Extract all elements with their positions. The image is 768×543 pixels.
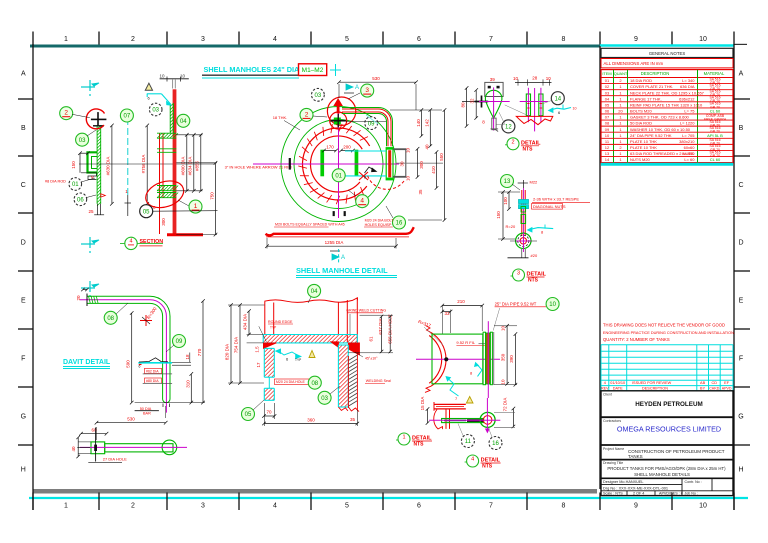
- svg-text:Drg No : XXX-XXX-ME-XXX-DTL-0: Drg No : XXX-XXX-ME-XXX-DTL-001: [603, 485, 668, 490]
- svg-text:530: 530: [127, 417, 135, 422]
- svg-text:07: 07: [605, 115, 610, 120]
- svg-text:#600 DIA: #600 DIA: [181, 157, 186, 176]
- svg-text:REINF PAD PLATE 15 THK 1320: REINF PAD PLATE 15 THK 1320 x 1010: [630, 102, 703, 107]
- svg-text:CL 60: CL 60: [710, 109, 721, 114]
- svg-text:WASHER 10 THK. OD 60 x 10.50: WASHER 10 THK. OD 60 x 10.50: [630, 127, 691, 132]
- svg-text:GASKET 3 THK. OD 723 x 8.60: GASKET 3 THK. OD 723 x 8.600: [630, 115, 690, 120]
- svg-text:05: 05: [605, 102, 610, 107]
- svg-text:45°±10°: 45°±10°: [365, 356, 378, 360]
- svg-text:770: 770: [197, 348, 202, 356]
- svg-text:11: 11: [465, 439, 472, 445]
- svg-text:09: 09: [368, 121, 375, 127]
- svg-text:17: 17: [256, 362, 261, 368]
- svg-text:5: 5: [345, 503, 349, 510]
- svg-text:72 DIA: 72 DIA: [503, 398, 508, 412]
- svg-text:ROUND EDGE: ROUND EDGE: [268, 320, 293, 324]
- svg-text:10: 10: [501, 326, 506, 332]
- svg-text:Drawing Title: Drawing Title: [603, 461, 623, 465]
- svg-text:10: 10: [573, 107, 577, 111]
- svg-text:4: 4: [360, 198, 364, 205]
- svg-text:A: A: [355, 85, 359, 91]
- svg-text:BAR: BAR: [143, 412, 151, 416]
- svg-text:03: 03: [605, 90, 610, 95]
- svg-text:1255 DIA: 1255 DIA: [325, 240, 344, 245]
- svg-text:750: 750: [210, 192, 215, 200]
- svg-text:CHKD: CHKD: [709, 387, 720, 391]
- svg-text:1.5: 1.5: [255, 346, 260, 353]
- svg-text:07: 07: [124, 114, 131, 120]
- svg-text:10: 10: [159, 74, 165, 79]
- svg-text:4: 4: [273, 36, 277, 43]
- svg-text:4: 4: [129, 238, 132, 244]
- svg-text:3: 3: [201, 36, 205, 43]
- svg-text:8: 8: [562, 36, 566, 43]
- svg-text:350: 350: [501, 353, 506, 361]
- svg-text:8: 8: [562, 503, 566, 510]
- svg-text:L= 60: L= 60: [684, 157, 695, 162]
- svg-text:18 DIA ROD: 18 DIA ROD: [630, 78, 652, 83]
- svg-text:M1–M2: M1–M2: [302, 67, 324, 74]
- svg-text:QUANT: QUANT: [614, 71, 628, 76]
- svg-text:COVER PLATE 21 THK.: COVER PLATE 21 THK.: [630, 84, 673, 89]
- svg-text:Scale : NTS: Scale : NTS: [603, 492, 623, 496]
- svg-text:R=20: R=20: [506, 224, 516, 229]
- svg-text:L= 1220: L= 1220: [680, 121, 695, 126]
- svg-text:ENGINEERING PRACTICE DURING CO: ENGINEERING PRACTICE DURING CONSTRUCTION…: [603, 331, 735, 335]
- svg-text:QUANTITY: 2 NUMBER OF TANKS: QUANTITY: 2 NUMBER OF TANKS: [603, 337, 670, 342]
- svg-text:170: 170: [326, 144, 334, 149]
- svg-text:B: B: [739, 125, 744, 132]
- svg-text:NECK PLATE 22 THK. OD 1295 x: NECK PLATE 22 THK. OD 1295 x 10.657: [630, 90, 705, 95]
- svg-text:390: 390: [509, 355, 514, 363]
- svg-text:BY: BY: [700, 387, 706, 391]
- svg-text:2: 2: [131, 503, 135, 510]
- svg-text:25: 25: [88, 209, 94, 214]
- svg-text:16: 16: [492, 441, 499, 447]
- svg-text:300: 300: [161, 218, 166, 226]
- svg-text:2: 2: [131, 36, 135, 43]
- svg-text:636x212: 636x212: [679, 96, 695, 101]
- svg-text:9: 9: [634, 36, 638, 43]
- svg-text:1: 1: [194, 203, 198, 210]
- svg-text:10: 10: [549, 302, 556, 308]
- svg-text:360: 360: [307, 418, 315, 423]
- svg-text:12: 12: [505, 125, 512, 131]
- svg-text:380x210: 380x210: [679, 139, 695, 144]
- svg-text:8: 8: [364, 176, 366, 180]
- svg-text:28: 28: [532, 75, 538, 80]
- svg-text:M20 BOLTS EQUALLY SPACED WITH: M20 BOLTS EQUALLY SPACED WITH A45: [275, 223, 345, 227]
- svg-text:Job No :: Job No :: [685, 492, 698, 496]
- svg-text:9: 9: [634, 503, 638, 510]
- svg-text:80: 80: [461, 102, 466, 108]
- svg-text:#855: #855: [195, 160, 200, 171]
- svg-text:15 DIA: 15 DIA: [420, 397, 425, 411]
- svg-text:14: 14: [605, 157, 610, 162]
- svg-text:3: 3: [365, 87, 369, 94]
- svg-text:310: 310: [185, 380, 190, 388]
- svg-text:2: 2: [64, 110, 68, 117]
- svg-text:CL 60: CL 60: [710, 157, 721, 162]
- svg-text:61: 61: [369, 336, 374, 342]
- svg-text:1: 1: [64, 503, 68, 510]
- svg-text:Client: Client: [603, 393, 612, 397]
- svg-text:6: 6: [417, 503, 421, 510]
- svg-text:ITEM: ITEM: [602, 71, 611, 76]
- svg-text:Contr. No :: Contr. No :: [685, 480, 702, 484]
- svg-text:04: 04: [180, 119, 187, 125]
- svg-text:OMEGA RESOURCES LIMITED: OMEGA RESOURCES LIMITED: [617, 425, 721, 434]
- svg-text:03: 03: [152, 108, 159, 114]
- svg-text:TYP: TYP: [295, 358, 301, 362]
- svg-text:#8 DIA ROD: #8 DIA ROD: [45, 180, 66, 184]
- svg-text:C: C: [21, 182, 26, 189]
- svg-text:GRIND WELD CUTTING: GRIND WELD CUTTING: [346, 308, 386, 312]
- svg-text:4: 4: [604, 381, 606, 385]
- svg-text:2: 2: [305, 111, 309, 118]
- svg-text:E: E: [21, 298, 26, 305]
- svg-text:Contractors: Contractors: [603, 419, 621, 423]
- svg-text:06: 06: [77, 198, 84, 204]
- svg-text:5: 5: [345, 36, 349, 43]
- svg-text:M22: M22: [530, 180, 539, 185]
- svg-text:G: G: [738, 414, 743, 421]
- svg-text:7: 7: [489, 36, 493, 43]
- svg-text:18 THK.: 18 THK.: [273, 115, 288, 120]
- svg-text:32: 32: [470, 98, 475, 104]
- svg-text:14: 14: [554, 96, 561, 102]
- svg-text:10: 10: [699, 503, 707, 510]
- svg-text:PLATE 10 THK: PLATE 10 THK: [630, 139, 657, 144]
- svg-text:#20: #20: [531, 253, 538, 258]
- svg-text:39: 39: [490, 77, 496, 82]
- svg-text:1: 1: [64, 36, 68, 43]
- svg-text:50 DIA ROD: 50 DIA ROD: [630, 121, 652, 126]
- svg-text:DIAGONAL NUTS: DIAGONAL NUTS: [533, 204, 566, 209]
- svg-text:HEYDEN PETROLEUM: HEYDEN PETROLEUM: [635, 401, 703, 408]
- svg-text:C: C: [738, 182, 743, 189]
- svg-text:DESCRIPTION: DESCRIPTION: [642, 387, 668, 391]
- svg-text:L= 660: L= 660: [682, 151, 695, 156]
- svg-text:10: 10: [501, 379, 506, 385]
- svg-text:10: 10: [546, 76, 552, 81]
- svg-text:#62 DIA: #62 DIA: [146, 369, 159, 373]
- svg-text:16: 16: [396, 221, 403, 227]
- svg-text:DATE: DATE: [613, 387, 623, 391]
- svg-text:13: 13: [605, 151, 610, 156]
- svg-text:L= 75: L= 75: [684, 109, 695, 114]
- svg-text:NTS: NTS: [528, 278, 539, 284]
- svg-text:10: 10: [699, 36, 707, 43]
- svg-text:150: 150: [71, 161, 76, 169]
- svg-text:410: 410: [431, 166, 436, 174]
- svg-text:HOLES EQUISP: HOLES EQUISP: [365, 223, 392, 227]
- svg-text:A: A: [739, 71, 744, 78]
- svg-text:530: 530: [372, 76, 380, 81]
- svg-text:01: 01: [605, 78, 610, 83]
- svg-text:08: 08: [605, 121, 610, 126]
- svg-text:NTS: NTS: [482, 464, 493, 470]
- svg-text:06: 06: [605, 109, 610, 114]
- svg-text:1: 1: [402, 435, 405, 441]
- svg-text:APVD: APVD: [722, 387, 732, 391]
- svg-text:300: 300: [419, 161, 424, 169]
- svg-text:60x60: 60x60: [684, 145, 696, 150]
- svg-text:6: 6: [417, 36, 421, 43]
- svg-text:L= 705: L= 705: [682, 133, 695, 138]
- svg-text:3: 3: [201, 503, 205, 510]
- svg-text:01: 01: [72, 182, 79, 188]
- svg-text:01: 01: [335, 174, 342, 180]
- svg-text:20: 20: [618, 109, 623, 114]
- svg-text:10: 10: [605, 133, 610, 138]
- svg-text:REV: REV: [601, 387, 609, 391]
- svg-text:PLATE 10 THK: PLATE 10 THK: [630, 145, 657, 150]
- svg-text:09: 09: [605, 127, 610, 132]
- svg-text:03: 03: [321, 396, 328, 402]
- svg-text:D: D: [21, 240, 26, 247]
- svg-text:API 5L B: API 5L B: [707, 133, 723, 138]
- svg-text:13: 13: [504, 179, 511, 185]
- svg-text:ALL DIMENSIONS ARE IN mm: ALL DIMENSIONS ARE IN mm: [604, 61, 664, 66]
- svg-text:754 DIA: 754 DIA: [234, 337, 239, 353]
- svg-text:590: 590: [126, 360, 131, 368]
- svg-text:70: 70: [266, 410, 272, 415]
- svg-text:2: 2: [511, 139, 514, 145]
- svg-text:820 DIA: 820 DIA: [225, 344, 230, 360]
- svg-text:10: 10: [513, 76, 519, 81]
- svg-text:EF: EF: [724, 381, 730, 385]
- svg-text:L= 340: L= 340: [682, 78, 695, 83]
- svg-text:TANKS: TANKS: [628, 454, 643, 459]
- svg-text:30: 30: [400, 161, 405, 167]
- svg-text:40: 40: [425, 144, 430, 150]
- svg-text:27 DIA HOLE: 27 DIA HOLE: [103, 457, 127, 462]
- svg-text:9.52 R FIL: 9.52 R FIL: [456, 340, 475, 345]
- svg-text:40: 40: [71, 446, 76, 452]
- svg-text:F: F: [739, 356, 743, 363]
- svg-text:08: 08: [311, 381, 318, 387]
- svg-text:35: 35: [350, 417, 356, 422]
- svg-text:NTS: NTS: [414, 442, 425, 448]
- svg-text:TYP: TYP: [270, 326, 276, 330]
- svg-text:200: 200: [343, 144, 351, 149]
- svg-text:210: 210: [457, 299, 465, 304]
- svg-text:12: 12: [605, 145, 610, 150]
- svg-text:100: 100: [503, 197, 508, 205]
- svg-text:M20 24 DIA BOLT: M20 24 DIA BOLT: [365, 218, 395, 222]
- svg-text:H: H: [21, 467, 26, 474]
- svg-text:M20 24 DIA HOLE: M20 24 DIA HOLE: [276, 380, 305, 384]
- svg-text:20: 20: [76, 295, 81, 301]
- svg-text:DESCRIPTION: DESCRIPTION: [641, 71, 670, 76]
- svg-text:2-36 WITH x 33.7 RESPE: 2-36 WITH x 33.7 RESPE: [533, 197, 579, 202]
- svg-text:FLANGE 17 THK.: FLANGE 17 THK.: [630, 96, 662, 101]
- svg-text:PRODUCT TANKS FOR PMS/AGO/DPK: PRODUCT TANKS FOR PMS/AGO/DPK (28m DIA x…: [607, 466, 726, 471]
- svg-text:A: A: [341, 255, 345, 261]
- svg-text:H: H: [738, 467, 743, 474]
- svg-text:140: 140: [416, 119, 421, 127]
- svg-text:08: 08: [107, 316, 114, 322]
- svg-text:NTS: NTS: [523, 146, 534, 152]
- svg-text:NUTS M20: NUTS M20: [630, 157, 651, 162]
- svg-text:Project Name: Project Name: [603, 447, 624, 451]
- svg-text:02: 02: [605, 84, 610, 89]
- svg-text:10: 10: [180, 74, 186, 79]
- svg-text:7: 7: [489, 503, 493, 510]
- svg-text:18: 18: [185, 354, 190, 360]
- svg-text:434 DIA: 434 DIA: [243, 314, 248, 330]
- svg-text:09: 09: [176, 339, 183, 345]
- svg-text:03: 03: [315, 93, 322, 99]
- svg-text:DAVIT DETAIL: DAVIT DETAIL: [63, 359, 111, 366]
- svg-text:WELDING Seal: WELDING Seal: [366, 379, 391, 383]
- svg-text:D: D: [738, 240, 743, 247]
- svg-text:BOLTS M20: BOLTS M20: [630, 109, 652, 114]
- svg-text:10: 10: [406, 148, 411, 154]
- svg-text:#630 DIA: #630 DIA: [106, 157, 111, 176]
- svg-text:Designer Mo.HANXUEL: Designer Mo.HANXUEL: [603, 480, 644, 484]
- svg-text:60: 60: [91, 428, 97, 433]
- svg-text:CD: CD: [712, 381, 718, 385]
- svg-text:#634 DIA: #634 DIA: [188, 157, 193, 176]
- svg-text:550: 550: [439, 153, 444, 161]
- svg-text:G: G: [21, 414, 26, 421]
- svg-text:636 DIA: 636 DIA: [680, 84, 695, 89]
- svg-text:05: 05: [143, 209, 150, 215]
- svg-text:ISSUED FOR REVIEW: ISSUED FOR REVIEW: [632, 381, 672, 385]
- svg-text:AB: AB: [700, 381, 706, 385]
- svg-text:6: 6: [139, 365, 141, 369]
- svg-text:APVD/DES : #: APVD/DES : #: [659, 492, 684, 496]
- svg-text:SECTION: SECTION: [140, 239, 164, 245]
- svg-text:SHELL MANHOLE DETAIL: SHELL MANHOLE DETAIL: [296, 266, 388, 275]
- svg-text:142: 142: [425, 119, 430, 127]
- svg-text:#80 DIA: #80 DIA: [146, 379, 159, 383]
- svg-text:35: 35: [418, 189, 423, 195]
- svg-text:4: 4: [273, 503, 277, 510]
- svg-text:THIS DRAWING DOES NOT RELIEVE: THIS DRAWING DOES NOT RELIEVE THE VENDOR…: [603, 323, 725, 328]
- svg-text:2 OF 4: 2 OF 4: [633, 492, 644, 496]
- svg-text:637 DIA: 637 DIA: [378, 318, 383, 334]
- svg-text:SHELL MANHOLES 24" DIA: SHELL MANHOLES 24" DIA: [204, 65, 300, 74]
- svg-text:4: 4: [471, 457, 474, 463]
- svg-text:04: 04: [605, 96, 610, 101]
- svg-text:03: 03: [79, 138, 86, 144]
- svg-text:GENERAL NOTES: GENERAL NOTES: [649, 51, 686, 56]
- svg-text:10: 10: [406, 176, 411, 182]
- svg-text:F: F: [21, 356, 25, 363]
- svg-text:25" DIA PIPE 9.52 WT: 25" DIA PIPE 9.52 WT: [495, 301, 537, 306]
- svg-text:04: 04: [311, 289, 318, 295]
- svg-text:MATERIAL: MATERIAL: [704, 71, 725, 76]
- svg-text:B: B: [21, 125, 26, 132]
- svg-text:24" DIA PIPE 9.52 THK: 24" DIA PIPE 9.52 THK: [630, 133, 672, 138]
- svg-text:SHELL MANHOLE DETAILS: SHELL MANHOLE DETAILS: [634, 472, 690, 477]
- svg-text:E: E: [739, 298, 744, 305]
- svg-text:05: 05: [245, 412, 252, 418]
- svg-text:150: 150: [496, 211, 501, 219]
- svg-text:01/10/10: 01/10/10: [610, 381, 625, 385]
- svg-text:3: 3: [517, 271, 520, 277]
- svg-text:A: A: [21, 71, 26, 78]
